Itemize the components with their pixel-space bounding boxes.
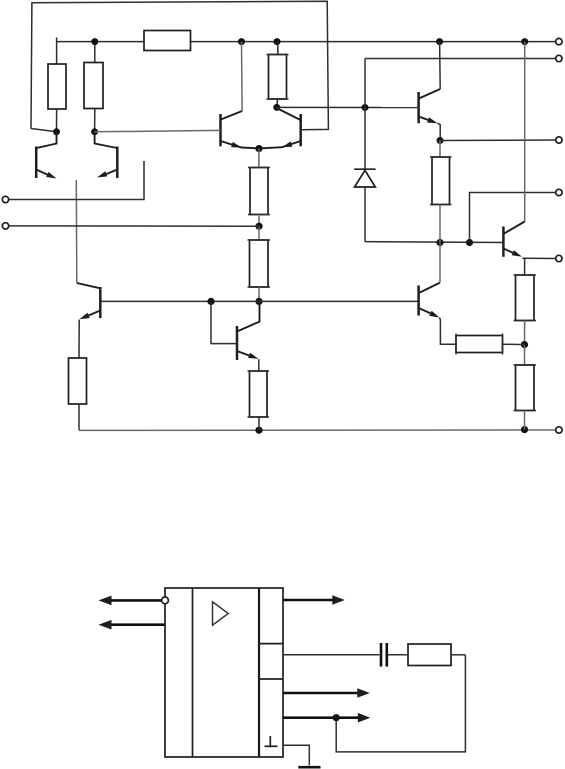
wire base Q3 from node B [95,130,221,131]
resistor R3 (series in rail) [144,31,191,51]
transistor Q9 (driver right) [419,243,440,318]
resistor R11 (Q6 emitter) [248,359,270,430]
internal ground mark [265,736,278,747]
resistor R5 [248,149,270,227]
resistor R1 [48,38,66,132]
diode D1 [354,169,375,241]
resistor R7 [514,258,537,344]
arrow out right low [283,713,370,723]
node B (R2 bottom) [91,128,98,135]
wire to compensation network [283,654,380,656]
op-amp triangle [213,602,229,625]
node R (Q7 emitter) [437,137,444,144]
node S (between R7 R8) [521,341,528,348]
ground symbol lead [283,745,309,765]
wire base bus y108 [277,106,419,108]
terminal T5 [556,255,562,261]
resistor R2 [84,42,103,132]
resistor R9 (horizontal) [440,318,525,355]
resistor R4 [267,42,289,108]
arrow out right top [283,595,345,605]
node L (bus left) [207,298,214,305]
terminal T4 [556,189,562,195]
terminal pin circle [162,597,169,604]
node Q [466,239,473,246]
block divider 2 [258,588,260,757]
node A (R1 bottom) [53,128,60,135]
transistor Q3 (left of second pair) [221,111,260,148]
node K (R6 bottom) [255,298,262,305]
node O (diode column top) [362,104,369,111]
node I (common emitters Q3 Q4) [255,145,262,152]
resistor R12 [430,141,452,243]
terminal IN2 [2,223,259,229]
terminal IN1 [2,161,144,203]
arrow out right mid [283,688,370,698]
capacitor C1 [381,643,387,667]
arrow out left 2 [99,620,166,630]
resistor R10 (Q5 emitter) [69,320,87,431]
terminal T3 [556,137,562,143]
wire Q1 rail drop to Q3 [241,42,244,111]
terminal T1 [556,38,562,44]
transistor Q5 (lower left) [77,283,101,319]
resistor R8 [514,345,537,430]
wire common collector vertical [75,180,78,283]
wire Q8 emitter to terminal T5 [522,257,555,259]
node C (rail) [91,38,98,45]
resistor R6 [248,226,271,301]
node N (bottom rail right) [521,426,528,433]
node P [436,239,443,246]
block divider 1 [192,588,194,757]
transistor Q7 (upper right) [419,42,441,141]
block U1 outline [165,588,283,757]
wire second stage base bus [100,300,418,302]
resistor R13 [388,644,465,666]
block cell divider b [259,678,283,680]
transistor Q8 (output upper) [503,222,524,257]
wire second supply from terminal [365,58,556,60]
wire bias row [365,241,503,244]
wire top supply rail [57,41,556,43]
wire feedback rectangle loop (left edge, top edge, right edge) [31,1,328,132]
node D (rail) [238,38,245,45]
wire diode column [364,59,366,170]
transistor Q2 (right input) [95,132,118,178]
node F (rail) [436,38,443,45]
transistor Q6 (mirror) [211,301,260,360]
arrow out left 1 [99,596,162,606]
ground bar [298,766,320,769]
wire terminal T4 branch [470,193,556,243]
transistor Q1 (left input) [36,132,56,179]
node E (rail) [274,38,281,45]
wire long rail drop [524,42,526,222]
node M (bottom rail) [255,427,262,434]
wire bottom rail [79,429,556,431]
node T (feedback tap) [333,714,340,721]
terminal T6 [556,427,562,433]
transistor Q4 (right of second pair) [259,109,301,149]
node J (between R5 R6) [255,223,262,230]
wire to output terminal T3 [440,139,556,142]
node H (R4 bottom) [273,104,280,111]
block cell divider a [259,643,283,645]
wire feedback loop [336,655,465,752]
terminal T2 [556,55,562,61]
node G (rail) [521,38,528,45]
